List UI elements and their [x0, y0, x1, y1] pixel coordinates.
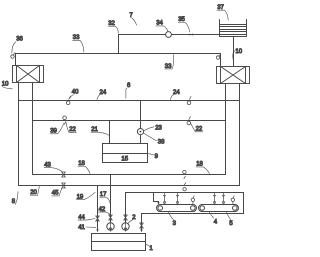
wire bus line C upper: [19, 100, 240, 102]
label 38: [144, 133, 165, 145]
label 23: [144, 126, 162, 132]
wire right outer riser down: [239, 84, 241, 186]
wire branch 21 to chiller: [109, 121, 111, 144]
svg-text:24: 24: [173, 90, 180, 96]
label 39: [50, 123, 64, 134]
wire right riser into radiator: [220, 54, 222, 67]
arrow into component 3 left: [157, 202, 159, 204]
pump 2: [122, 223, 129, 230]
valve 42: [109, 215, 113, 220]
radiator 10 right: [217, 67, 250, 84]
label 10 right: [233, 49, 243, 60]
tank 37: [220, 20, 247, 37]
label 43: [44, 162, 62, 171]
svg-text:38: 38: [158, 140, 165, 146]
svg-text:15: 15: [121, 156, 128, 162]
sensor on component 5: [231, 196, 234, 205]
wire main top pipe 33: [16, 53, 221, 55]
branch arrow 1 into component 4: [213, 193, 215, 205]
pump 41: [107, 223, 114, 230]
svg-text:1: 1: [149, 246, 153, 252]
pump 2 arrow: [124, 223, 126, 231]
component 3 capsule: [157, 205, 197, 212]
wire left riser into radiator: [15, 54, 17, 66]
wire branch 19 from line B: [97, 186, 99, 232]
bleed valve on line A: [183, 170, 186, 178]
label 41: [78, 225, 96, 231]
bleed valve on line D right: [187, 117, 191, 125]
battery tank 1: [92, 234, 146, 251]
circle 34: [166, 32, 172, 38]
branch arrow 2 into component 4: [222, 193, 224, 205]
label 24 left: [97, 90, 107, 100]
label 40: [70, 90, 79, 99]
wire branch to expansion circle 23: [140, 101, 142, 129]
pump 41 arrow: [109, 223, 111, 231]
coupling dots 35: [189, 34, 194, 36]
valve 45 on line B: [62, 183, 66, 188]
label 42: [98, 207, 110, 215]
branch arrow 1 into component 3: [163, 193, 165, 205]
label 5: [226, 212, 233, 227]
svg-text:3: 3: [173, 221, 177, 227]
label 1: [146, 244, 154, 252]
label 24 right: [170, 90, 180, 100]
sensor 23: [137, 129, 143, 135]
label 7: [129, 13, 136, 25]
label 18 left: [78, 161, 90, 173]
vent valve 36: [11, 53, 15, 59]
label 2: [128, 215, 136, 223]
arrow into tank bottom left: [96, 229, 98, 232]
bleed valve on line C right: [187, 96, 191, 104]
label 35: [178, 17, 190, 32]
label 17: [100, 192, 111, 204]
label 19: [76, 192, 95, 200]
wire right inner riser down: [225, 84, 227, 175]
valve 43 on line A: [62, 172, 66, 177]
label 21: [91, 127, 109, 135]
wire return line F2: [142, 193, 244, 232]
label 34: [156, 21, 168, 32]
label 20: [30, 186, 39, 196]
wire elbow into component 3: [154, 193, 159, 203]
wire bus line B return outer: [19, 185, 240, 187]
wire circle 23 to chiller: [140, 135, 142, 144]
label 9: [148, 154, 159, 160]
label 45: [52, 188, 62, 197]
wire branch 17 from line A: [110, 175, 112, 232]
svg-text:7: 7: [129, 13, 133, 19]
wire bus line A return: [33, 174, 226, 176]
bleed valve 40 on line C: [66, 96, 70, 104]
label 36: [12, 37, 24, 53]
label 37: [217, 5, 228, 20]
svg-text:41: 41: [78, 225, 85, 231]
arrow into tank from return: [140, 229, 142, 232]
bleed valve on line B: [183, 183, 186, 191]
svg-text:23: 23: [155, 126, 162, 132]
svg-text:10: 10: [2, 81, 9, 87]
valve on return drop: [140, 223, 144, 228]
label 32: [108, 21, 118, 33]
svg-text:6: 6: [127, 83, 131, 89]
wire pump 2 riser and feed line F1: [126, 193, 244, 232]
wire left outer riser down: [18, 83, 20, 186]
branch arrow 2 into component 3: [176, 193, 178, 205]
label 4: [209, 212, 218, 225]
wire left inner riser down: [32, 83, 34, 175]
radiator 10 left: [13, 66, 44, 83]
svg-text:2: 2: [132, 215, 136, 221]
vent valve right: [216, 54, 220, 59]
svg-text:10: 10: [235, 49, 242, 55]
bleed valve 39 on line D: [63, 116, 67, 124]
wire tank down to right radiator: [233, 37, 235, 67]
svg-text:24: 24: [100, 90, 107, 96]
sensor on component 3: [191, 196, 194, 205]
valve on pump 2 riser: [124, 215, 128, 220]
svg-text:5: 5: [229, 221, 233, 227]
label 33 lower: [165, 55, 174, 70]
label 33 upper: [73, 35, 84, 52]
chiller 15: [103, 144, 148, 163]
component 4 5 capsule: [199, 205, 239, 212]
label 6: [126, 83, 131, 98]
label 18 right: [196, 162, 210, 174]
svg-text:36: 36: [16, 37, 23, 43]
wire bus line D lower: [33, 120, 226, 122]
svg-text:4: 4: [214, 219, 218, 225]
label 44: [78, 215, 95, 221]
label 22 right: [190, 122, 203, 133]
label 10 left: [2, 81, 13, 88]
svg-text:9: 9: [155, 154, 159, 160]
label 8: [12, 192, 18, 205]
label 22 left: [66, 122, 77, 133]
label 3: [168, 212, 176, 227]
wire top feed line to tank: [119, 35, 220, 54]
svg-text:8: 8: [12, 199, 16, 205]
valve 44: [96, 216, 100, 221]
